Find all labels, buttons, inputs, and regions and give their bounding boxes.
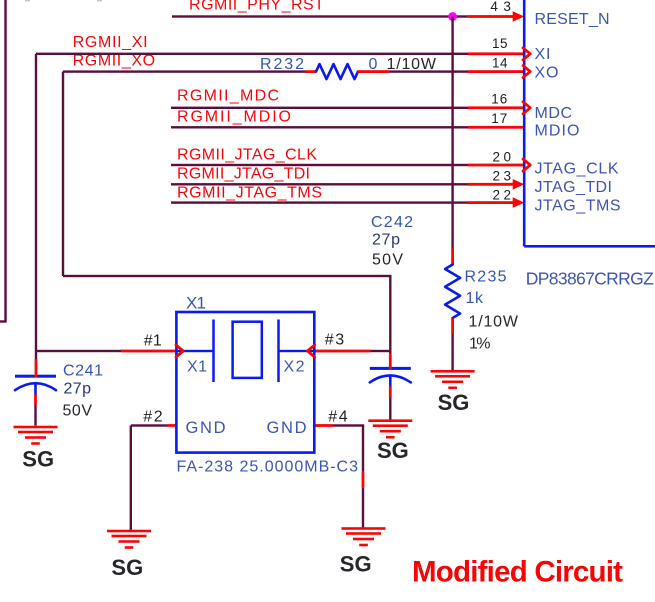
svg-text:MDIO: MDIO bbox=[535, 123, 580, 140]
svg-text:SG: SG bbox=[340, 552, 372, 577]
svg-text:1/10W: 1/10W bbox=[469, 314, 519, 331]
svg-text:MDC: MDC bbox=[535, 105, 573, 122]
svg-text:C242: C242 bbox=[371, 214, 413, 231]
svg-text:RGMII_PHY_RST: RGMII_PHY_RST bbox=[189, 0, 324, 14]
svg-text:RGMII_XI: RGMII_XI bbox=[73, 34, 148, 51]
svg-text:#4: #4 bbox=[328, 409, 348, 426]
svg-text:16: 16 bbox=[491, 92, 507, 107]
svg-text:1k: 1k bbox=[466, 290, 485, 307]
svg-text:1%: 1% bbox=[469, 336, 491, 353]
svg-text:GND: GND bbox=[186, 419, 226, 437]
svg-text:X2: X2 bbox=[284, 359, 305, 376]
svg-text:SG: SG bbox=[111, 555, 143, 580]
svg-text:RGMII_MDIO: RGMII_MDIO bbox=[177, 108, 291, 125]
svg-text:27p: 27p bbox=[64, 381, 92, 398]
svg-text:SG: SG bbox=[438, 390, 470, 415]
svg-text:RGMII_JTAG_TDI: RGMII_JTAG_TDI bbox=[177, 165, 310, 182]
svg-text:X1: X1 bbox=[186, 294, 206, 313]
svg-text:27p: 27p bbox=[372, 232, 400, 249]
svg-text:GND: GND bbox=[267, 419, 307, 437]
svg-text:0: 0 bbox=[369, 56, 378, 73]
svg-text:RGMII_MDC: RGMII_MDC bbox=[177, 88, 279, 105]
svg-text:JTAG_TDI: JTAG_TDI bbox=[535, 179, 613, 196]
svg-text:SG: SG bbox=[22, 447, 54, 472]
svg-text:RGMII_JTAG_TMS: RGMII_JTAG_TMS bbox=[177, 184, 322, 201]
svg-text:XO: XO bbox=[535, 65, 559, 82]
svg-text:17: 17 bbox=[491, 111, 507, 126]
svg-text:RGMII_JTAG_CLK: RGMII_JTAG_CLK bbox=[177, 146, 317, 163]
svg-text:DP83867CRRGZ: DP83867CRRGZ bbox=[526, 269, 654, 289]
svg-text:SG: SG bbox=[377, 438, 409, 463]
svg-text:R232: R232 bbox=[260, 56, 304, 73]
svg-text:Modified Circuit: Modified Circuit bbox=[412, 556, 623, 589]
svg-text:#1: #1 bbox=[144, 332, 162, 349]
svg-text:RGMII_XO: RGMII_XO bbox=[73, 53, 156, 70]
svg-text:#3: #3 bbox=[325, 332, 345, 349]
svg-text:50V: 50V bbox=[63, 403, 93, 420]
svg-text:FA-238 25.0000MB-C3: FA-238 25.0000MB-C3 bbox=[177, 459, 359, 476]
svg-text:XI: XI bbox=[535, 46, 551, 63]
svg-text:RESET_N: RESET_N bbox=[535, 11, 610, 28]
svg-text:#2: #2 bbox=[143, 409, 163, 426]
svg-text:50V: 50V bbox=[372, 252, 403, 269]
svg-text:JTAG_CLK: JTAG_CLK bbox=[535, 161, 619, 178]
svg-text:1/10W: 1/10W bbox=[387, 56, 437, 73]
svg-text:15: 15 bbox=[492, 36, 508, 51]
svg-text:R235: R235 bbox=[465, 269, 507, 286]
svg-text:C241: C241 bbox=[63, 363, 103, 380]
svg-text:14: 14 bbox=[492, 56, 508, 71]
svg-text:JTAG_TMS: JTAG_TMS bbox=[535, 197, 621, 214]
svg-text:X1: X1 bbox=[187, 359, 207, 376]
